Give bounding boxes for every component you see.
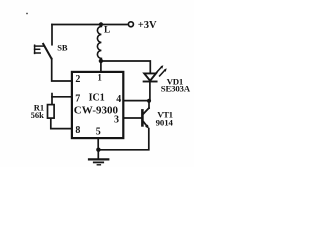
svg-text:CW-9300: CW-9300 — [74, 105, 119, 117]
svg-text:2: 2 — [75, 74, 80, 85]
svg-text:1: 1 — [97, 73, 102, 83]
svg-text:5: 5 — [96, 126, 101, 137]
svg-text:8: 8 — [75, 125, 80, 136]
svg-text:7: 7 — [75, 94, 80, 105]
svg-text:56k: 56k — [31, 110, 44, 120]
svg-text:L: L — [104, 26, 110, 36]
svg-text:+3V: +3V — [138, 20, 157, 31]
svg-text:SE303A: SE303A — [161, 84, 191, 94]
svg-text:SB: SB — [57, 42, 68, 52]
svg-text:9014: 9014 — [156, 117, 174, 127]
svg-text:IC1: IC1 — [89, 92, 105, 103]
svg-text:4: 4 — [116, 94, 121, 105]
